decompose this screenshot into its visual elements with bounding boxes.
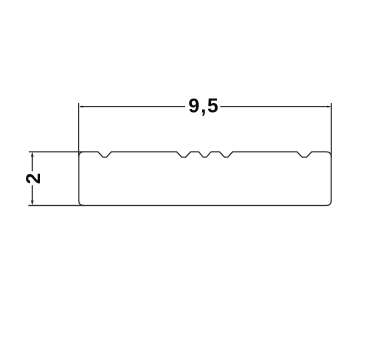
board profile outline xyxy=(79,152,331,206)
arrowhead right end of 9,5 dimension line xyxy=(327,106,331,108)
svg-text:2: 2 xyxy=(23,173,45,184)
extension line bottom of 2 dimension xyxy=(28,205,84,207)
arrowhead left end of 9,5 dimension line xyxy=(79,106,83,108)
dimension line 2 lower segment xyxy=(31,185,33,203)
arrowhead bottom end of 2 dimension line xyxy=(31,201,34,206)
arrowhead top end of 2 dimension line xyxy=(31,152,34,157)
dimension line 9,5 left segment xyxy=(80,106,185,108)
extension line top of 2 dimension xyxy=(29,151,83,153)
dimension line 2 upper segment xyxy=(31,154,33,172)
svg-text:9,5: 9,5 xyxy=(188,95,219,117)
extension line left of 9,5 dimension xyxy=(78,103,80,157)
dimension line 9,5 right segment xyxy=(220,106,330,108)
extension line right of 9,5 dimension xyxy=(330,103,332,157)
